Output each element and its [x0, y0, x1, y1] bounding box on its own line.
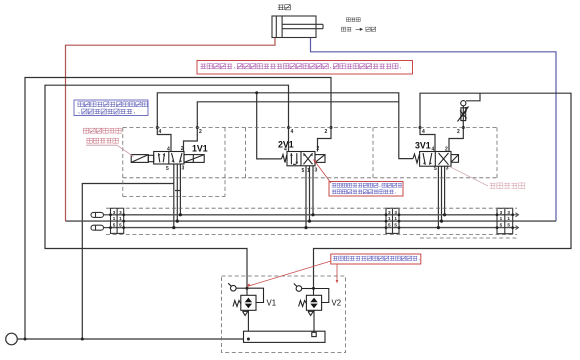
svg-text:5: 5	[500, 223, 503, 228]
svg-text:3: 3	[446, 166, 449, 172]
svg-text:2: 2	[317, 146, 320, 152]
svg-text:1: 1	[500, 216, 503, 221]
svg-text:2: 2	[445, 146, 448, 152]
svg-text:5: 5	[119, 223, 122, 228]
svg-text:1: 1	[307, 168, 310, 174]
svg-text:1: 1	[388, 216, 391, 221]
svg-text:4: 4	[432, 146, 435, 152]
svg-text:4: 4	[422, 129, 425, 135]
svg-text:4: 4	[167, 146, 170, 152]
svg-text:3V1: 3V1	[415, 140, 431, 150]
svg-text:3: 3	[119, 210, 122, 215]
svg-text:5: 5	[113, 223, 116, 228]
svg-text:2: 2	[325, 129, 328, 135]
svg-text:5: 5	[434, 166, 437, 172]
svg-text:4: 4	[159, 129, 162, 135]
svg-text:3: 3	[507, 210, 510, 215]
svg-text:3: 3	[315, 168, 318, 174]
svg-text:2: 2	[199, 129, 202, 135]
svg-text:1: 1	[119, 216, 122, 221]
svg-text:3: 3	[182, 166, 185, 172]
svg-text:1V1: 1V1	[192, 143, 208, 153]
svg-text:2: 2	[457, 129, 460, 135]
svg-text:5: 5	[302, 168, 305, 174]
svg-text:5: 5	[507, 223, 510, 228]
svg-text:1: 1	[113, 216, 116, 221]
svg-text:5: 5	[166, 166, 169, 172]
svg-text:3: 3	[113, 210, 116, 215]
svg-text:1: 1	[394, 216, 397, 221]
svg-text:3: 3	[500, 210, 503, 215]
svg-text:1: 1	[507, 216, 510, 221]
svg-text:3: 3	[388, 210, 391, 215]
svg-text:5: 5	[388, 223, 391, 228]
svg-text:2: 2	[181, 146, 184, 152]
svg-text:V1: V1	[267, 299, 277, 308]
svg-text:4: 4	[284, 146, 287, 152]
svg-text:3: 3	[394, 210, 397, 215]
svg-text:5: 5	[394, 223, 397, 228]
svg-text:4: 4	[291, 129, 294, 135]
svg-text:V2: V2	[332, 299, 342, 308]
